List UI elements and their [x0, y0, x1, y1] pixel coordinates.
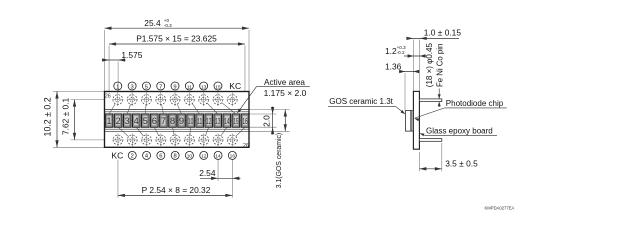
svg-text:1: 1 [107, 116, 112, 126]
pin label 13 (top) [200, 82, 208, 90]
wire element 10 to pin 10 [189, 127, 192, 135]
svg-text:9: 9 [173, 84, 176, 90]
svg-text:7: 7 [161, 116, 166, 126]
pin hole bottom row (10) [184, 133, 195, 147]
pin label 8 (bottom) [171, 151, 179, 159]
wire element 8 to pin 8 [172, 127, 174, 135]
extension line: bottom pin 16 centre for dims [231, 160, 233, 198]
dimension 10.2 +/- 0.2 (body height) [43, 92, 59, 148]
svg-text:16: 16 [242, 118, 248, 127]
photodiode element 13 [214, 114, 222, 127]
svg-text:1.575: 1.575 [121, 50, 142, 60]
extension line: element 1 centre for pitch dims [108, 46, 110, 115]
svg-text:KMPDA0277EA: KMPDA0277EA [485, 205, 515, 210]
photodiode element 5 [142, 114, 150, 127]
svg-text:26: 26 [243, 143, 249, 149]
svg-text:3: 3 [130, 84, 133, 90]
svg-text:26: 26 [105, 93, 111, 99]
svg-text:11: 11 [187, 84, 192, 90]
svg-text:10: 10 [187, 154, 193, 160]
pin hole bottom row (4) [141, 133, 152, 147]
wire element 1 to pin 1 [109, 104, 115, 114]
svg-text:8: 8 [170, 116, 175, 126]
pin hole top row (5) [141, 92, 152, 107]
extension line: bottom pin KC centre for 20.32 dim [117, 160, 119, 198]
svg-text:5: 5 [145, 84, 148, 90]
svg-text:8: 8 [174, 154, 177, 160]
svg-text:7: 7 [159, 84, 162, 90]
extension line: pin end for 3.5 dim [441, 143, 443, 171]
pin hole top row (7) [155, 92, 166, 107]
centerline: bottom pin row for 7.62 dim [71, 139, 113, 141]
bottom pin (Fe Ni Co) [419, 139, 441, 142]
dimension 3.5 +/- 0.5 (pin length) [419, 159, 478, 171]
svg-text:5: 5 [143, 116, 148, 126]
strip inner bottom edge [105, 128, 250, 130]
photodiode element 3 [123, 114, 131, 127]
pin label 5 (top) [142, 82, 150, 90]
pin hole top row (13) [198, 92, 209, 107]
photodiode element 6 [151, 114, 159, 127]
svg-text:4: 4 [134, 116, 139, 126]
pin hole bottom row (16) [227, 133, 238, 147]
svg-text:2: 2 [131, 154, 134, 160]
svg-text:3.5 ± 0.5: 3.5 ± 0.5 [445, 159, 478, 169]
photodiode element 8 [169, 114, 177, 127]
extension line: body right edge for 25.4 dim [248, 30, 250, 92]
centerline: top pin row for 7.62 dim [71, 99, 113, 101]
wire element 4 to pin 4 [136, 127, 143, 136]
pin label 12 (bottom) [200, 151, 208, 159]
extension line: active area top for 2.0 dim [249, 113, 277, 115]
pin hole bottom row (8) [170, 133, 181, 147]
svg-text:KC: KC [229, 81, 241, 91]
photodiode element 10 [187, 114, 195, 127]
label active area [237, 78, 310, 114]
svg-text:Photodiode chip: Photodiode chip [446, 99, 504, 108]
pin hole bottom row (2) [127, 133, 138, 147]
svg-text:Fe Ni Co pin: Fe Ni Co pin [436, 44, 445, 87]
wire element 13 to pin 13 [207, 103, 218, 114]
extension line: board left face (1.0/1.2/1.36 dims) [412, 40, 414, 92]
photodiode element 11 [196, 114, 204, 127]
glass epoxy board (side view) [413, 91, 419, 149]
centerline: element row [105, 119, 250, 121]
dimension 25.4 +0 -0.3 (body width) [105, 18, 250, 30]
svg-text:1: 1 [116, 84, 119, 90]
wire element 7 to pin 7 [162, 104, 164, 114]
pin hole top row (KC) [227, 92, 238, 107]
svg-text:2.0: 2.0 [261, 115, 271, 127]
svg-text:11: 11 [197, 118, 202, 127]
dimension 3.1 GOS ceramic (strip height) [276, 110, 287, 189]
top pin (Fe Ni Co) [419, 99, 441, 102]
extension line: element 16 centre for pitch dim [244, 46, 246, 115]
pin hole top row (15) [212, 92, 223, 107]
dimension P1.575 x 15 = 23.625 (element pitch overall) [109, 34, 245, 46]
pin label 4 (bottom) [143, 151, 151, 159]
photodiode element 4 [132, 114, 140, 127]
svg-text:14: 14 [224, 118, 230, 127]
pin hole bottom row (12) [198, 133, 209, 147]
photodiode chip (side view) [411, 111, 414, 132]
svg-text:13: 13 [215, 118, 221, 127]
photodiode element 14 [223, 114, 231, 127]
svg-text:GOS ceramic 1.3t: GOS ceramic 1.3t [329, 97, 393, 106]
pin hole top row (3) [127, 92, 138, 107]
extension line: board right face (1.0 dim) [418, 40, 420, 92]
dimension 1.0 +/- 0.15 (board thickness) [406, 28, 461, 40]
extension line: body bottom for 10.2 dim [53, 146, 105, 148]
svg-text:10.2 ± 0.2: 10.2 ± 0.2 [43, 97, 53, 136]
svg-text:6: 6 [152, 116, 157, 126]
photodiode element 1 [105, 114, 113, 127]
svg-text:2: 2 [116, 116, 121, 126]
extension line: body left edge for 25.4 dim [104, 30, 106, 92]
svg-text:1.0 ± 0.15: 1.0 ± 0.15 [424, 28, 462, 38]
strip inner top edge [105, 111, 250, 113]
pin hole bottom row (6) [155, 133, 166, 147]
pin hole bottom row (KC) [112, 133, 123, 147]
pin label 2 (bottom) [128, 151, 136, 159]
svg-text:Active area: Active area [264, 78, 305, 87]
extension line: ceramic strip bottom for 3.1 dim [249, 130, 290, 132]
GOS ceramic plate (side view) [406, 111, 411, 132]
label glass epoxy board [420, 127, 497, 137]
extension line: board right face for 3.5 dim [418, 152, 420, 171]
pin hole bottom row (14) [212, 133, 223, 147]
svg-text:15: 15 [215, 84, 221, 90]
svg-text:10: 10 [188, 118, 194, 127]
photodiode element 12 [205, 114, 213, 127]
dimension 1.2 +0.3 -0.2 [385, 45, 426, 58]
pin label 9 (top) [171, 82, 179, 90]
pin label 14 (bottom) [214, 151, 222, 159]
photodiode element 15 [232, 114, 240, 127]
svg-text:12: 12 [201, 154, 207, 160]
extension line: body top for 10.2 dim [53, 91, 105, 93]
svg-text:Glass epoxy board: Glass epoxy board [426, 127, 493, 136]
pin label 3 (top) [128, 82, 136, 90]
svg-text:1.175 × 2.0: 1.175 × 2.0 [264, 88, 307, 98]
wire element 2 to pin 2 [118, 127, 128, 136]
wire element 14 to pin 14 [221, 127, 227, 136]
svg-text:P 2.54 × 8 = 20.32: P 2.54 × 8 = 20.32 [142, 185, 211, 195]
svg-text:13: 13 [201, 84, 207, 90]
dimension 2.54 (pin pitch) [199, 168, 240, 180]
GOS ceramic strip bottom edge [105, 130, 250, 132]
pin label 6 (bottom) [157, 151, 165, 159]
svg-text:15: 15 [233, 118, 239, 127]
wire element 16 to pin 16 [236, 127, 245, 136]
pin label 16 (bottom) [228, 151, 236, 159]
svg-text:3.1(GOS ceramic): 3.1(GOS ceramic) [276, 133, 283, 189]
photodiode element 7 [160, 114, 168, 127]
wire element 6 to pin 6 [154, 127, 158, 135]
svg-text:-0.2: -0.2 [397, 50, 405, 55]
dimension 7.62 +/- 0.1 (pin row spacing) [61, 97, 77, 139]
GOS ceramic strip top edge [105, 109, 250, 111]
package body (front view) [105, 92, 250, 148]
dimension (18 x) phi 0.45 pin dia [425, 43, 445, 107]
svg-text:9: 9 [179, 116, 184, 126]
pin label 11 (top) [185, 82, 193, 90]
photodiode element 9 [178, 114, 186, 127]
svg-text:1.36: 1.36 [385, 62, 402, 72]
pin label 7 (top) [157, 82, 165, 90]
svg-text:6: 6 [159, 154, 162, 160]
svg-text:KC: KC [111, 151, 123, 161]
svg-text:16: 16 [230, 154, 236, 160]
svg-text:14: 14 [215, 154, 221, 160]
svg-text:-0.3: -0.3 [164, 23, 172, 28]
dimension 1.575 (element pitch) [102, 50, 143, 62]
photodiode element 2 [114, 114, 122, 127]
extension line: element 2 centre for 1.575 dim [117, 62, 119, 115]
extension line: ceramic strip top for 3.1 dim [249, 109, 290, 111]
pin label 1 (top) [114, 82, 122, 90]
pin label 10 (bottom) [185, 151, 193, 159]
extension line: active area bottom for 2.0 dim [249, 126, 277, 128]
photodiode element 16 [241, 114, 249, 127]
svg-text:1.2: 1.2 [385, 46, 397, 56]
label photodiode chip [414, 99, 507, 121]
wire element 12 to pin 12 [206, 127, 209, 135]
pin hole top row (1) [112, 92, 123, 107]
svg-text:7.62 ± 0.1: 7.62 ± 0.1 [61, 97, 71, 135]
extension line: ceramic outer face (1.36 dim) [404, 73, 406, 111]
dimension 2.0 (active area height) [261, 107, 274, 135]
svg-text:3: 3 [125, 116, 130, 126]
dimension 1.36 [385, 62, 420, 74]
wire element 11 to pin 11 [192, 104, 199, 114]
svg-text:2.54: 2.54 [199, 168, 216, 178]
pin hole top row (9) [169, 92, 180, 107]
wire element 5 to pin 5 [144, 104, 147, 114]
pin hole top row (11) [184, 92, 195, 107]
dimension P 2.54 x 8 = 20.32 (pin row overall) [118, 185, 232, 197]
svg-text:25.4: 25.4 [144, 18, 161, 28]
wire element 3 to pin 3 [127, 104, 130, 114]
label GOS ceramic 1.3t [328, 97, 405, 114]
svg-text:12: 12 [206, 118, 212, 127]
wire element 15 to pin 15 [222, 103, 236, 114]
svg-text:(18 ×) φ0.45: (18 ×) φ0.45 [425, 43, 434, 88]
svg-text:P1.575 × 15 = 23.625: P1.575 × 15 = 23.625 [136, 34, 217, 44]
pin label 15 (top) [214, 82, 222, 90]
extension line: bottom pin 14 centre for 2.54 dim [217, 160, 219, 182]
wire element 9 to pin 9 [177, 104, 181, 114]
